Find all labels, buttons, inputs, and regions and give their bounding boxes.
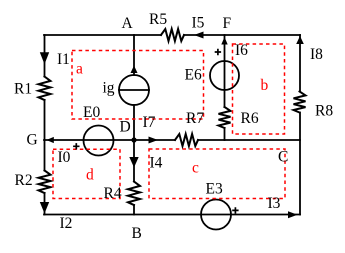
wire G to D horizontal (44, 139, 134, 141)
svg-text:D: D (120, 119, 131, 136)
wire left branch middle (44, 100, 46, 171)
svg-text:R2: R2 (15, 172, 33, 189)
svg-text:R4: R4 (104, 185, 122, 202)
svg-text:I0: I0 (58, 149, 71, 166)
plus sign of E0 (73, 143, 79, 149)
svg-text:I2: I2 (60, 215, 73, 232)
wire ig to D (133, 105, 135, 140)
svg-text:R7: R7 (186, 110, 204, 127)
svg-text:I1: I1 (57, 51, 70, 68)
plus sign of E6 (215, 49, 221, 55)
svg-text:b: b (261, 77, 269, 94)
current arrow I5 (194, 32, 204, 39)
current arrow I8 (296, 36, 304, 44)
wire R4 to B (133, 205, 135, 215)
svg-text:d: d (86, 167, 94, 184)
current arrow I1 (40, 52, 49, 64)
current arrow I3 (288, 211, 298, 218)
svg-text:I6: I6 (235, 42, 248, 59)
svg-text:F: F (223, 15, 232, 32)
svg-text:E3: E3 (206, 181, 223, 198)
current arrow I0 (46, 137, 53, 143)
resistor R7 (175, 134, 198, 146)
svg-text:A: A (122, 15, 134, 32)
current arrow ig direction (131, 66, 138, 74)
voltage source E3 (201, 200, 231, 230)
wire R7 to node C (198, 139, 300, 141)
current source ig bar (119, 89, 149, 91)
wire bottom B rail (44, 214, 300, 216)
resistor R1 (39, 77, 51, 101)
wire left branch lower (44, 193, 46, 215)
wire F down through E6 (224, 35, 226, 107)
current arrow I6 (221, 37, 227, 45)
resistor R2 (39, 171, 51, 194)
svg-text:I8: I8 (310, 46, 323, 63)
wire A down to ig (133, 35, 135, 75)
svg-text:C: C (278, 149, 288, 166)
wire top segment right of R5 to right corner (184, 34, 300, 36)
mesh box c (149, 149, 285, 199)
resistor R6 (219, 107, 231, 128)
plus sign of E3 (232, 207, 238, 213)
svg-text:E0: E0 (83, 104, 100, 121)
resistor R5 (161, 29, 184, 41)
wire right branch lower (299, 113, 301, 215)
wire left branch upper (44, 35, 46, 77)
svg-text:a: a (76, 61, 83, 78)
current arrow I4 (129, 157, 138, 168)
current arrow I7 (149, 137, 159, 144)
voltage source E6 (210, 61, 239, 90)
svg-text:G: G (27, 132, 38, 149)
wire R6 to D-C wire (224, 128, 226, 140)
svg-text:ig: ig (103, 80, 115, 97)
resistor R8 (294, 92, 306, 113)
wire D down to R4 (133, 140, 135, 182)
wire D to R7 (134, 139, 175, 141)
svg-text:E6: E6 (185, 67, 202, 84)
svg-text:I5: I5 (192, 15, 205, 32)
mesh box a (72, 51, 204, 120)
mesh box d (53, 149, 120, 198)
wire right branch upper (299, 35, 301, 92)
svg-text:c: c (192, 160, 199, 177)
wire top A-F segment left of R5 (44, 34, 161, 36)
svg-text:R5: R5 (149, 11, 167, 28)
svg-text:R1: R1 (14, 81, 32, 98)
svg-text:I4: I4 (150, 155, 163, 172)
svg-text:B: B (132, 225, 142, 242)
current arrow I2 (40, 202, 49, 214)
junction dot node D (131, 137, 136, 142)
svg-text:R8: R8 (315, 103, 333, 120)
mesh box b (233, 44, 285, 134)
current source ig (119, 75, 149, 105)
svg-text:R6: R6 (241, 110, 259, 127)
resistor R4 (128, 182, 140, 206)
svg-text:I7: I7 (143, 114, 156, 131)
voltage source E0 (84, 126, 114, 156)
svg-text:I3: I3 (268, 195, 281, 212)
